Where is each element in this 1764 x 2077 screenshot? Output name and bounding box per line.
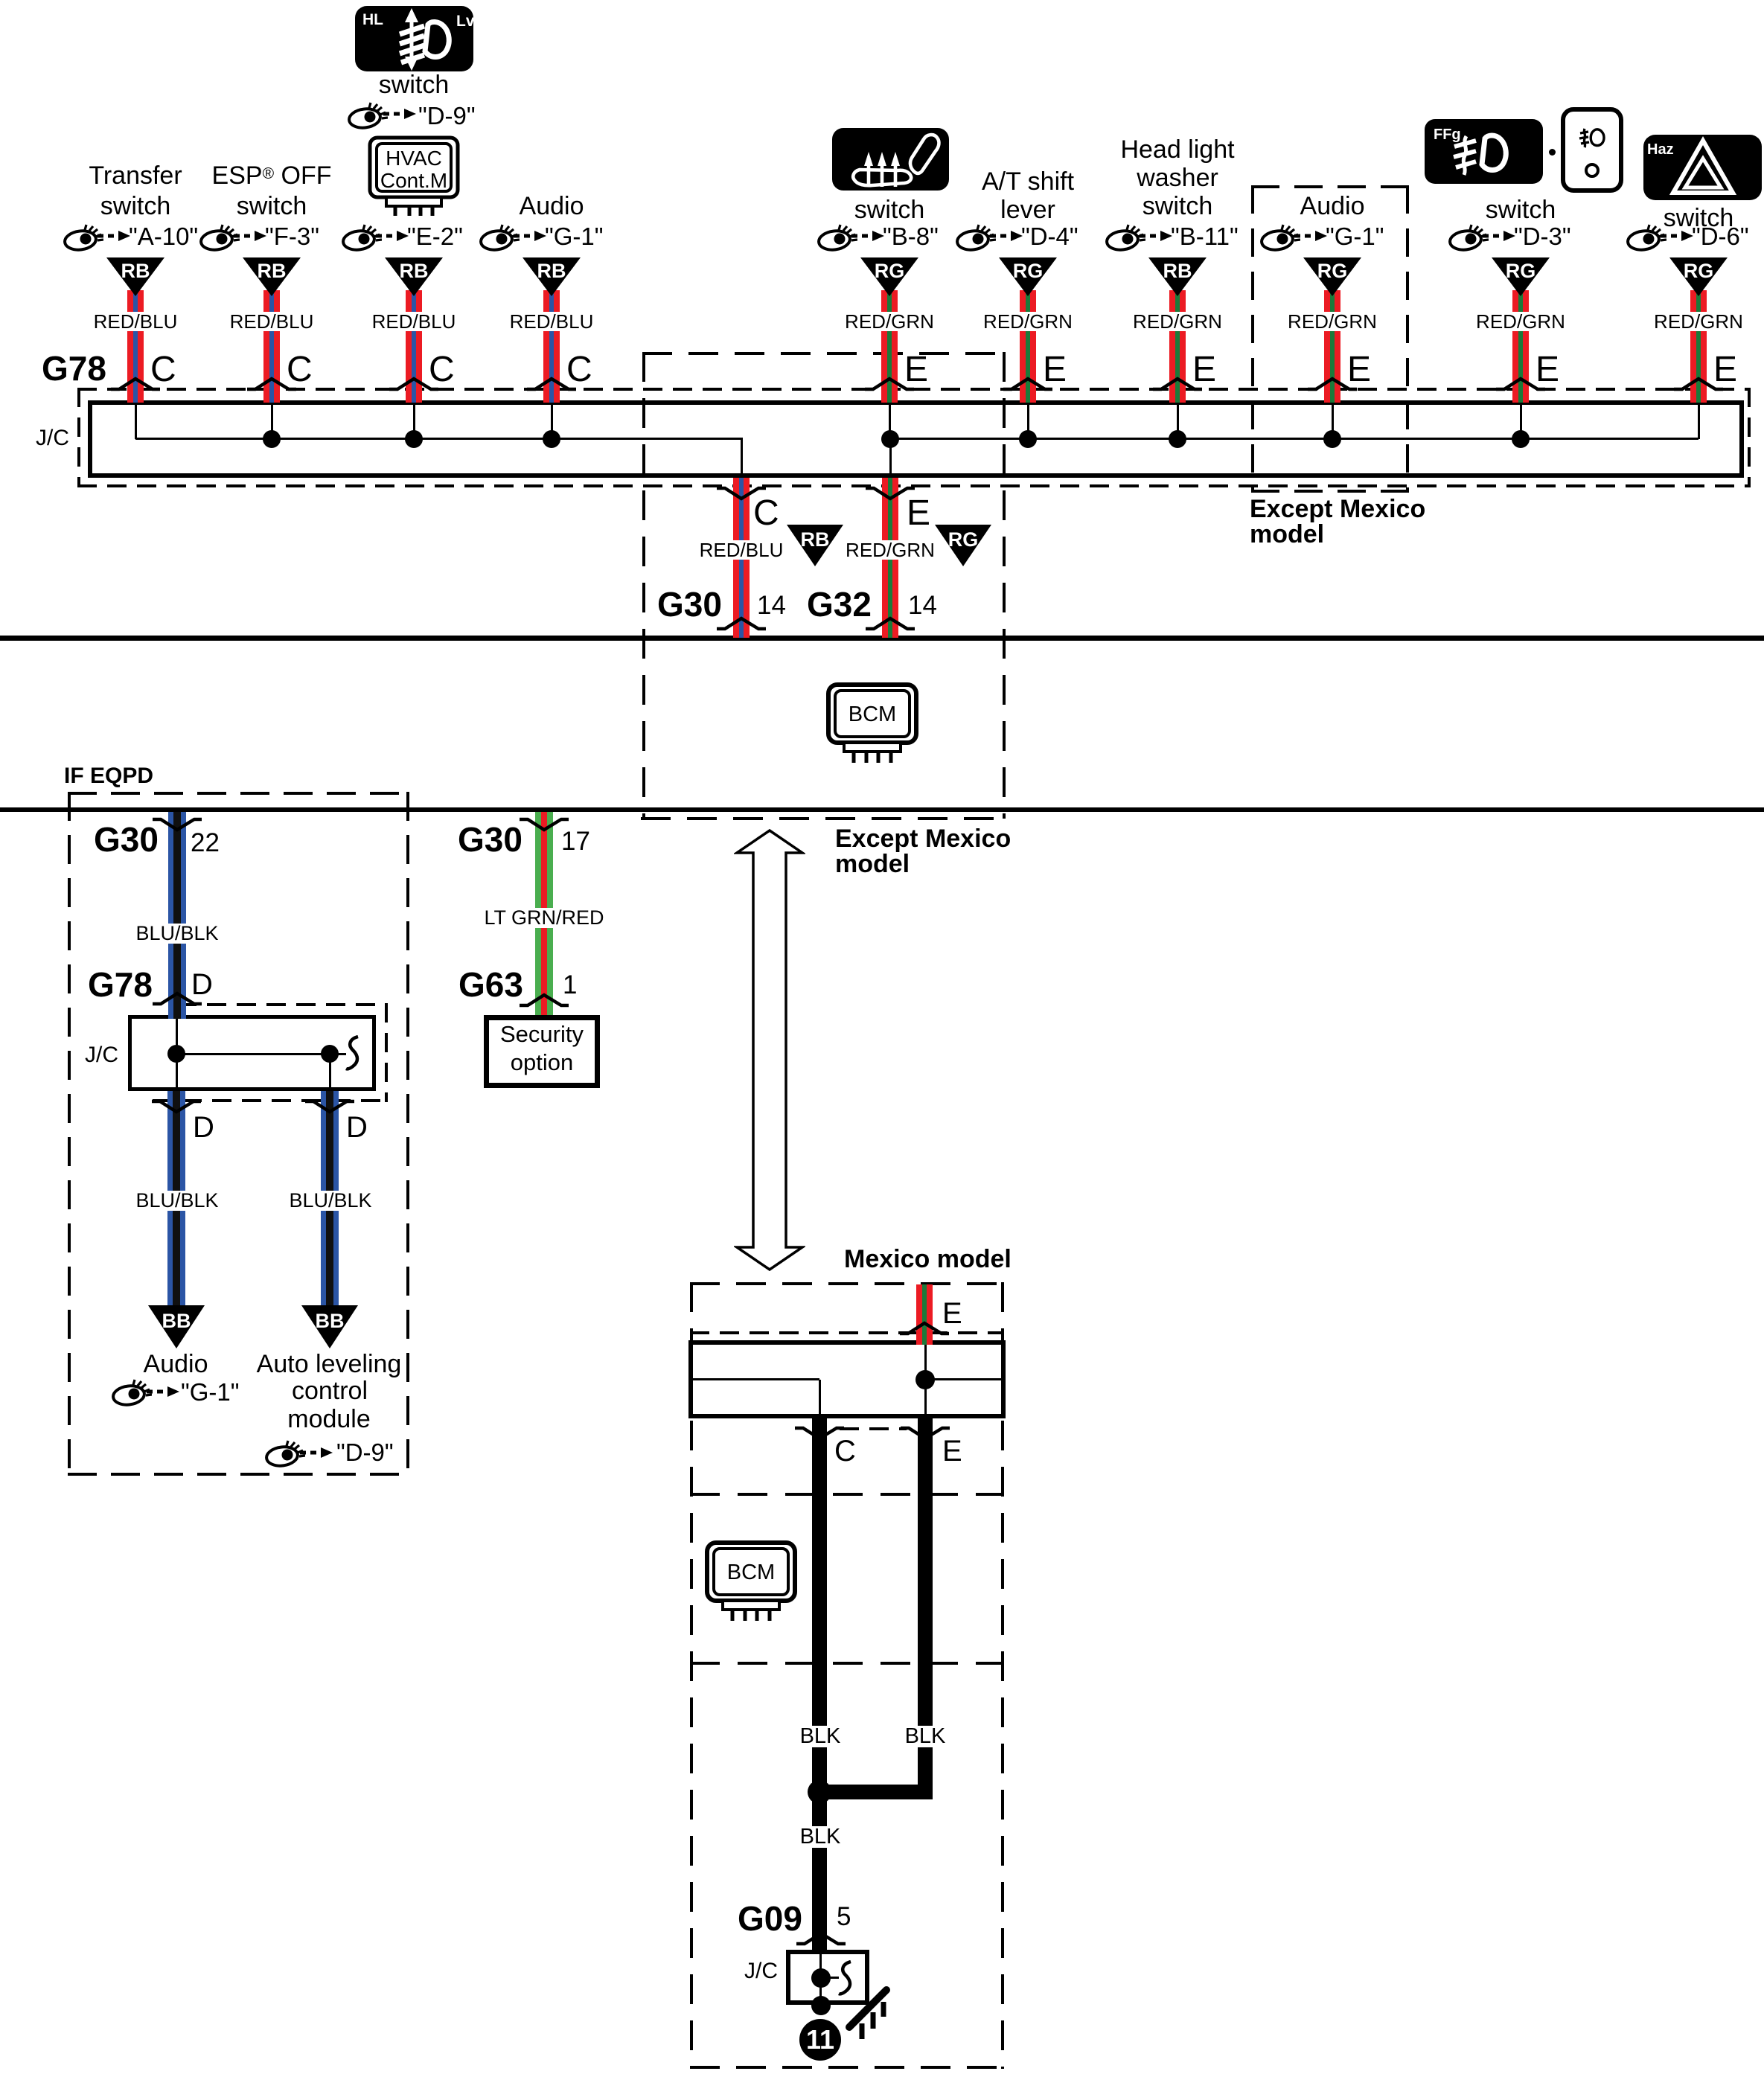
connector triangle RG column 5 (860, 257, 918, 296)
svg-text:RG: RG (875, 260, 905, 282)
G63 connector label (458, 967, 523, 1002)
G09 pin 5 (837, 1904, 851, 1930)
G78 connector label (IF EQPD) (88, 967, 153, 1002)
wire color label BLK C (798, 1726, 843, 1747)
svg-text:RG: RG (1506, 260, 1536, 282)
pin letter D left (193, 1113, 214, 1142)
headlight leveling arrow (383, 108, 417, 120)
front fog light switch icon (1424, 118, 1544, 185)
column 2 ref (265, 224, 319, 249)
column 2 eye (199, 223, 240, 252)
J/C2 curl stub (330, 1053, 346, 1055)
wire color label column 1 (92, 312, 180, 331)
G30 connector label (IF EQPD) (94, 822, 159, 857)
svg-text:BCM: BCM (727, 1561, 775, 1584)
auto leveling eye (265, 1439, 305, 1468)
wire color label LT GRN/RED (482, 908, 606, 928)
IF EQPD dashed box bottom (68, 1473, 409, 1476)
junction dot at x=556 (405, 430, 423, 448)
column 10 eye (1626, 223, 1666, 252)
except-mexico audio dashed box bottom (1251, 490, 1409, 493)
column 2 arrow (233, 230, 267, 242)
svg-text:Lv: Lv (456, 13, 474, 30)
connector chevron mexico E exit (900, 1426, 950, 1441)
column 10 ref (1692, 224, 1749, 249)
headlight leveling eye (348, 101, 388, 129)
column 2 label line (237, 193, 307, 219)
column 6 eye (956, 223, 996, 252)
hazard switch icon (1643, 134, 1763, 201)
connector chevron G78 pin E column 7 (1152, 377, 1203, 391)
column 7 arrow (1139, 230, 1173, 242)
junction connector box (IF EQPD) (128, 1015, 376, 1091)
connector chevron mexico C exit (794, 1426, 845, 1441)
svg-text:FFg: FFg (1434, 127, 1461, 143)
connector chevron E drop exit (865, 486, 915, 501)
wire color label BLU/BLK 3 (287, 1191, 374, 1211)
column 5 ref (883, 224, 939, 249)
column 4 arrow (513, 230, 547, 242)
column 2 label line (212, 163, 332, 188)
mexico inner dashed row 2 (690, 1662, 1004, 1665)
J/C corner riser column 1 (135, 405, 137, 439)
J/C inner bus line right segment (890, 438, 1699, 440)
wire color label column 5 (843, 312, 936, 331)
svg-text:RB: RB (258, 260, 287, 282)
J/C stub column 5 (889, 405, 891, 439)
connector triangle RB column 4 (523, 257, 581, 296)
J/C2 junction dot right (321, 1045, 339, 1063)
page separator line 2 (0, 807, 1764, 812)
J/C drop riser to E (889, 438, 892, 475)
pin letter E column 9 (1535, 352, 1559, 388)
junction dot at x=2043 (1512, 430, 1530, 448)
wire BLK elbow (812, 1785, 933, 1799)
svg-text:RG: RG (1013, 260, 1044, 282)
connector triangle RB column 1 (106, 257, 164, 296)
column 6 arrow (989, 230, 1023, 242)
connector triangle RG column 9 (1492, 257, 1550, 296)
junction connector box ground (786, 1950, 869, 2005)
junction dot at x=1196 (881, 430, 899, 448)
J/C stub column 3 (413, 405, 415, 439)
column 6 ref (1021, 224, 1078, 249)
rear fog light switch icon (1561, 107, 1623, 193)
column 3 ref (407, 224, 463, 249)
mexico inner dashed row 1 (690, 1493, 1004, 1496)
svg-text:RB: RB (1163, 260, 1192, 282)
J/C4 dot upper (811, 1968, 831, 1988)
security option box (484, 1015, 600, 1088)
junction connector G78 box (88, 400, 1744, 478)
junction dot at x=1582 (1169, 430, 1186, 448)
J/C2 inner line (176, 1053, 330, 1055)
wire LT GRN/RED (535, 812, 553, 1015)
wire column 5 RG vertical (881, 290, 898, 403)
headlight leveling switch icon (354, 5, 474, 72)
svg-text:RG: RG (948, 528, 979, 551)
column 7 label line (1143, 193, 1212, 219)
G30 pin 17 (561, 828, 590, 854)
svg-text:Cont.M: Cont.M (380, 169, 447, 192)
junction dot at x=365 (263, 430, 281, 448)
wire color label column 4 (508, 312, 596, 331)
central dashed box right (1003, 352, 1006, 819)
connector triangle RB column 3 (385, 257, 443, 296)
column 4 label line (520, 193, 584, 219)
connector triangle RB column 2 (243, 257, 301, 296)
J/C drop riser to C (741, 438, 743, 475)
wire column 4 RB vertical (543, 290, 560, 403)
wire color label BLK E (903, 1726, 948, 1747)
headlight leveling switch label (379, 72, 449, 97)
column 1 label line (100, 193, 170, 219)
mexico dashed box bottom (690, 2066, 1004, 2069)
column 1 arrow (97, 230, 131, 242)
wire color label column 9 (1474, 312, 1568, 331)
J/C 2 dashed outline bottom (153, 1099, 388, 1102)
wire BLU/BLK G30-22 (168, 812, 186, 1019)
J/C inner bus line left segment (135, 438, 741, 440)
connector chevron mexico E entry (899, 1321, 950, 1336)
auto leveling label line1 (257, 1351, 402, 1377)
J/C3 inner line right (925, 1378, 1003, 1380)
wire column 10 RG vertical (1690, 290, 1707, 403)
fog switch separator dot (1549, 149, 1556, 156)
connector chevron G30-22 (152, 817, 202, 832)
G78 dashed boundary bottom (77, 484, 1751, 487)
J/C2 junction dot left (167, 1045, 185, 1063)
except-mexico audio dashed box top (1251, 185, 1409, 188)
column 4 eye (479, 223, 520, 252)
J/C3 riser E (924, 1345, 927, 1414)
J/C 2 dashed outline right (385, 1003, 388, 1102)
G78 dashed boundary left (77, 388, 80, 487)
pin letter C mexico (834, 1436, 856, 1466)
central dashed box bottom (641, 817, 1003, 820)
column 1 ref (129, 224, 198, 249)
connector chevron G78 pin E column 5 (864, 377, 915, 391)
J/C stub column 2 (271, 405, 273, 439)
except mexico model caption (center) line1 (835, 826, 1011, 851)
column 5 arrow (851, 230, 885, 242)
J/C stub column 7 (1177, 405, 1179, 439)
pin letter E column 7 (1192, 352, 1216, 388)
except-mexico audio dashed box right (1406, 185, 1409, 492)
central dashed box top (642, 352, 1006, 355)
mexico dashed box left (690, 1282, 693, 2069)
wire BLK C mexico (812, 1418, 827, 1950)
connector chevron D left exit (151, 1099, 202, 1114)
connector triangle RG mid (935, 525, 991, 566)
svg-text:RB: RB (121, 260, 150, 282)
BCM module (except Mexico) (826, 682, 918, 764)
connector triangle BB audio (148, 1305, 205, 1348)
HVAC control module symbol (368, 135, 460, 216)
headlight leveling ref (418, 103, 476, 128)
pin letter C drop (753, 496, 779, 531)
pin letter E column 10 (1713, 352, 1737, 388)
column 9 label line (1486, 197, 1556, 223)
connector chevron G63-1 (519, 993, 569, 1008)
junction dot at x=741 (543, 430, 560, 448)
bidirectional arrow except-mexico to mexico (734, 829, 805, 1271)
G78 dashed boundary right (1748, 388, 1751, 487)
J/C4 stub right (821, 1977, 839, 1979)
column 5 eye (817, 223, 857, 252)
security option text line1 (500, 1023, 584, 1046)
wire color label column 6 (981, 312, 1075, 331)
svg-text:RB: RB (801, 528, 830, 551)
mexico model caption (844, 1246, 1012, 1272)
svg-text:HL: HL (362, 11, 383, 28)
connector chevron G78 pin E column 8 (1307, 377, 1358, 391)
security option text line2 (511, 1051, 573, 1074)
J/C4 continuation curl (837, 1960, 856, 1997)
column 5 label line (854, 197, 924, 223)
seat heater switch icon (831, 127, 950, 191)
svg-text:RB: RB (400, 260, 429, 282)
svg-text:BB: BB (162, 1310, 191, 1332)
G09 connector label (738, 1901, 802, 1936)
column 9 ref (1514, 224, 1571, 249)
junction dot at x=1381 (1019, 430, 1037, 448)
J/C3 junction dot (915, 1370, 935, 1389)
junction connector box mexico (688, 1340, 1006, 1418)
G78 dashed boundary top (77, 388, 1751, 391)
J/C 2 dashed outline top (177, 1003, 388, 1006)
connector chevron G78 pin C column 3 (389, 377, 439, 391)
G30 pin 14 (757, 592, 786, 618)
connector chevron G30-14 (716, 616, 767, 631)
J/C4 wire riser (819, 1954, 822, 2006)
column 9 arrow (1482, 230, 1516, 242)
svg-text:RB: RB (537, 260, 566, 282)
connector chevron G78 pin E column 9 (1495, 377, 1546, 391)
column 1 eye (63, 223, 103, 252)
connector chevron G09-5 (796, 1931, 846, 1946)
column 7 eye (1105, 223, 1145, 252)
pin letter C column 3 (429, 352, 455, 388)
central dashed box left (642, 352, 645, 819)
audio arrow (146, 1386, 180, 1398)
audio eye (112, 1378, 152, 1406)
column 8 arrow (1294, 230, 1328, 242)
J/C stub column 4 (551, 405, 553, 439)
junction dot at x=1790 (1323, 430, 1341, 448)
svg-text:Haz: Haz (1647, 141, 1674, 158)
wire RED/BLU drop C (733, 478, 750, 638)
G32 pin 14 (908, 592, 937, 618)
wire color label column 3 (370, 312, 458, 331)
auto leveling label line3 (287, 1406, 371, 1432)
J/C label ground (744, 1960, 778, 1982)
J/C2 left wire pass-through (176, 1019, 178, 1088)
column 8 label line (1300, 193, 1365, 219)
connector chevron G32-14 (865, 616, 915, 631)
wire BLK E mexico (918, 1418, 933, 1792)
column 1 label line (89, 163, 182, 188)
J/C3 inner line left (691, 1378, 819, 1380)
pin letter E drop (907, 496, 930, 531)
J/C2 right drop (329, 1054, 331, 1088)
pin letter E column 8 (1347, 352, 1371, 388)
connector chevron G78 pin C column 4 (526, 377, 577, 391)
audio ref (181, 1380, 239, 1404)
pin letter D right (346, 1113, 368, 1142)
wire RED/GRN drop E (882, 478, 898, 638)
wire color label RED/BLU drop (697, 540, 786, 560)
wire color label BLU/BLK 1 (133, 924, 220, 944)
wire color label column 2 (228, 312, 316, 331)
except mexico model caption line2 (1250, 522, 1324, 547)
connector chevron G78 pin E column 10 (1673, 377, 1724, 391)
connector chevron C drop exit (716, 486, 767, 501)
connector triangle RG column 6 (999, 257, 1057, 296)
svg-text:BB: BB (316, 1310, 345, 1332)
column 3 arrow (375, 230, 409, 242)
wire column 7 RG vertical (1169, 290, 1186, 403)
connector chevron G78-D (152, 991, 202, 1006)
svg-text:HVAC: HVAC (386, 147, 442, 170)
connector chevron D right exit (304, 1099, 355, 1114)
except mexico model caption line1 (1250, 496, 1425, 522)
ground reference number 11 (799, 2018, 842, 2061)
J/C corner riser column 10 (1698, 405, 1700, 439)
J/C label G78 (36, 427, 69, 449)
wire RED/GRN mexico E entry (916, 1284, 933, 1345)
column 4 ref (545, 224, 603, 249)
wire BLU/BLK to audio (167, 1091, 185, 1305)
IF EQPD label (64, 765, 153, 787)
except-mexico audio dashed box left (1251, 185, 1254, 492)
column 10 label line (1664, 205, 1733, 231)
J/C label (IF EQPD) (85, 1044, 118, 1066)
audio destination label (144, 1351, 208, 1377)
svg-text:RG: RG (1684, 260, 1714, 282)
pin letter C column 1 (150, 352, 176, 388)
BCM module (mexico) (705, 1540, 797, 1622)
except mexico model caption (center) line2 (835, 851, 910, 877)
G78 connector label (42, 351, 106, 385)
auto leveling arrow (299, 1447, 333, 1459)
connector triangle RB column 7 (1148, 257, 1207, 296)
pin letter E mexico entry (942, 1299, 962, 1328)
connector triangle BB auto leveling (301, 1305, 358, 1348)
wire color label column 8 (1285, 312, 1379, 331)
wire BLU/BLK to auto leveling (321, 1091, 339, 1305)
wire color label column 7 (1131, 312, 1224, 331)
IF EQPD dashed box top (68, 792, 409, 795)
mexico exit dashed boundary (840, 1427, 907, 1430)
G30 connector label (security) (458, 822, 523, 857)
IF EQPD dashed box left (68, 792, 71, 1476)
G78 pin D (191, 970, 213, 999)
wire color label column 10 (1652, 312, 1745, 331)
G32 connector label (807, 587, 872, 621)
svg-text:BCM: BCM (849, 703, 896, 726)
connector chevron G78 pin C column 2 (246, 377, 297, 391)
G30 connector label (657, 587, 722, 621)
column 7 ref (1171, 224, 1239, 249)
connector chevron G78 pin E column 6 (1003, 377, 1053, 391)
G30 pin 22 (191, 830, 220, 856)
junction dot BLK merge (808, 1780, 831, 1804)
column 9 eye (1448, 223, 1489, 252)
page separator line 1 (0, 636, 1764, 641)
pin letter E mexico (942, 1436, 962, 1466)
connector chevron G78 pin C column 1 (110, 377, 161, 391)
wire column 2 RB vertical (263, 290, 280, 403)
J/C3 drop C (819, 1380, 821, 1414)
wire column 3 RB vertical (406, 290, 422, 403)
J/C stub column 9 (1520, 405, 1522, 439)
pin letter C column 2 (287, 352, 313, 388)
pin letter E column 5 (904, 352, 928, 388)
wire color label BLK below (798, 1826, 843, 1848)
column 10 arrow (1660, 230, 1694, 242)
J/C stub column 8 (1332, 405, 1334, 439)
J/C4 dot lower (811, 1996, 831, 2015)
IF EQPD dashed box right (406, 792, 409, 1476)
wire column 6 RG vertical (1020, 290, 1036, 403)
pin letter E column 6 (1043, 352, 1067, 388)
pin letter C column 4 (566, 352, 592, 388)
column 3 eye (342, 223, 382, 252)
column 7 label line (1137, 165, 1218, 191)
wire column 1 RB vertical (127, 290, 144, 403)
G63 pin 1 (563, 972, 577, 998)
wire column 8 RG vertical (1324, 290, 1340, 403)
column 6 label line (982, 169, 1074, 194)
connector chevron G30-17 (519, 817, 569, 832)
wire column 9 RG vertical (1512, 290, 1529, 403)
J/C stub column 6 (1027, 405, 1029, 439)
column 6 label line (1000, 197, 1055, 223)
svg-text:11: 11 (806, 2024, 834, 2055)
column 8 eye (1260, 223, 1300, 252)
connector triangle RB mid (787, 525, 843, 566)
mexico connector dashed boundary (690, 1331, 1004, 1334)
mexico dashed box right (1001, 1282, 1004, 2069)
wire color label RED/GRN drop (843, 540, 937, 560)
connector triangle RG column 8 (1303, 257, 1361, 296)
auto leveling ref (336, 1440, 394, 1465)
J/C2 continuation curl (344, 1035, 363, 1072)
wire color label BLU/BLK 2 (133, 1191, 220, 1211)
column 8 ref (1326, 224, 1384, 249)
column 7 label line (1120, 137, 1234, 162)
chassis ground symbol (846, 1982, 892, 2042)
svg-text:RG: RG (1317, 260, 1348, 282)
auto leveling label line2 (292, 1378, 368, 1404)
connector triangle RG column 10 (1669, 257, 1728, 296)
mexico dashed box top (690, 1282, 1004, 1285)
